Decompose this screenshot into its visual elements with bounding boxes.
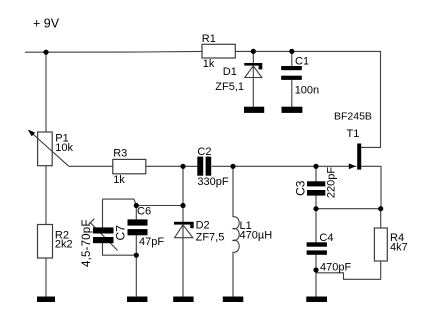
svg-text:C2: C2 [197,146,211,158]
svg-text:R3: R3 [113,148,127,160]
svg-text:C6: C6 [137,206,151,218]
svg-text:C1: C1 [295,55,309,67]
svg-text:47pF: 47pF [139,236,164,248]
svg-text:+ 9V: + 9V [33,17,60,31]
svg-text:ZF7,5: ZF7,5 [196,232,225,244]
svg-text:330pF: 330pF [197,176,228,188]
svg-text:470pF: 470pF [320,261,351,273]
svg-text:100n: 100n [295,84,319,96]
svg-text:2k2: 2k2 [55,238,73,250]
svg-text:4,5-70pF: 4,5-70pF [81,219,93,267]
svg-text:R1: R1 [202,33,216,45]
svg-text:C4: C4 [319,232,333,244]
svg-text:1k: 1k [113,174,125,186]
svg-text:T1: T1 [347,128,360,140]
svg-text:BF245B: BF245B [334,111,372,123]
svg-text:D1: D1 [223,66,237,78]
svg-text:C3: C3 [293,180,307,196]
svg-text:D2: D2 [196,220,210,232]
svg-text:ZF5,1: ZF5,1 [215,81,244,93]
svg-text:220pF: 220pF [325,167,337,198]
svg-text:10k: 10k [55,142,73,154]
svg-text:470µH: 470µH [240,230,273,242]
svg-text:1k: 1k [203,58,215,70]
svg-text:4k7: 4k7 [390,241,408,253]
svg-text:C7: C7 [113,225,127,241]
